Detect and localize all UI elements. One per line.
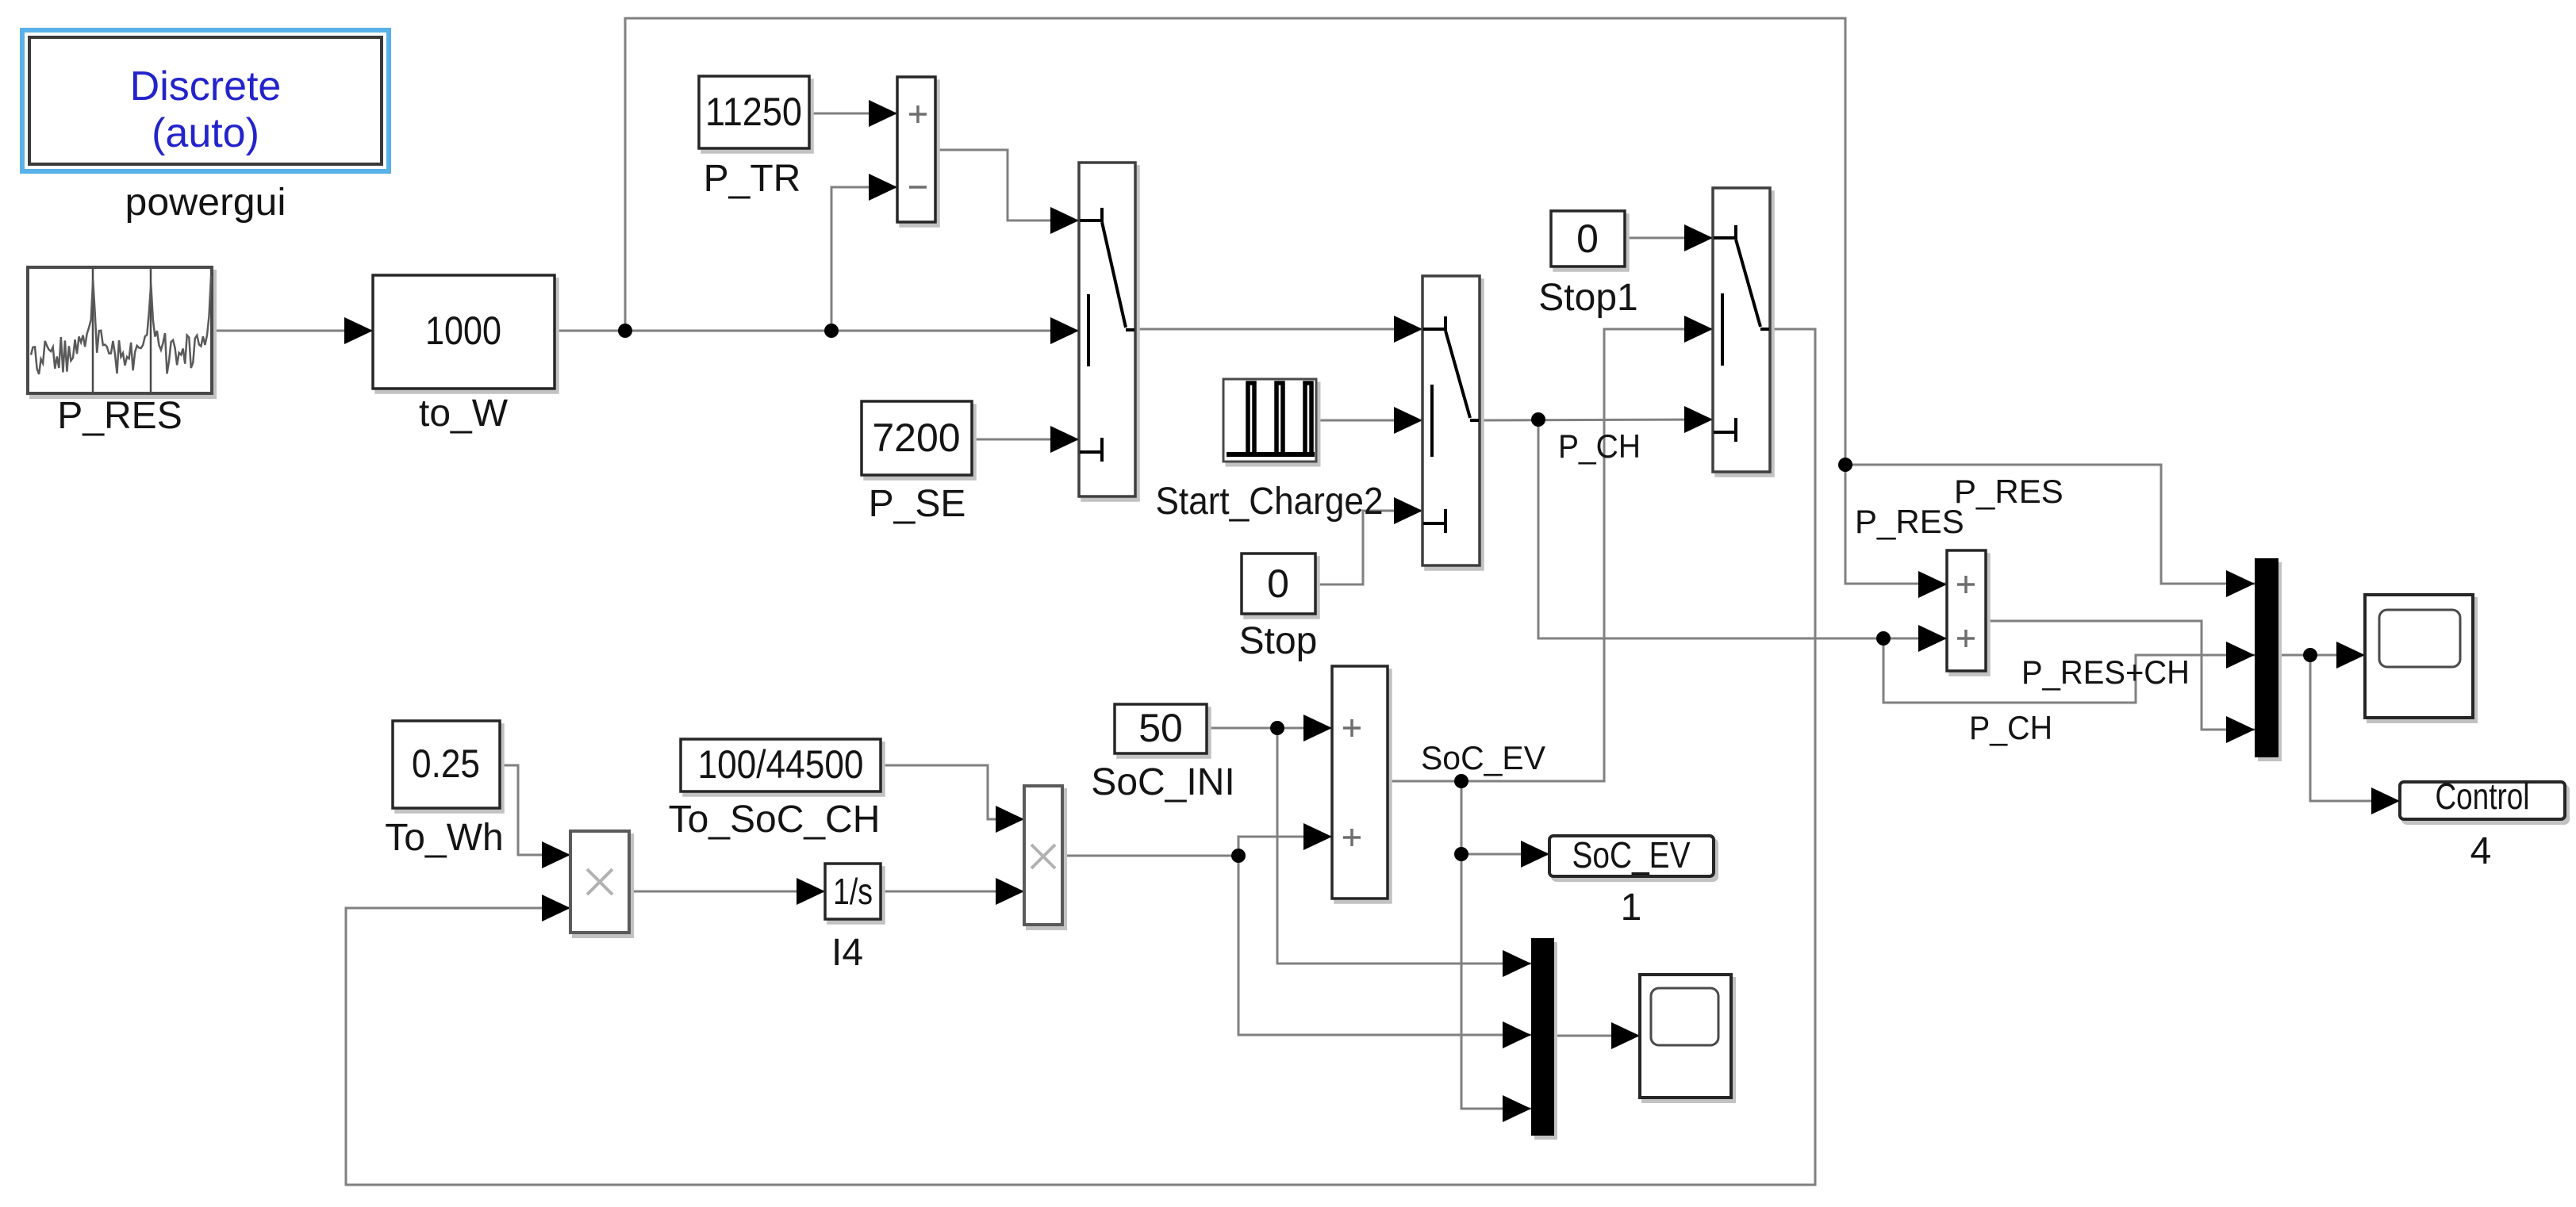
wire SoC_EV branch to mux1 in3: [1461, 854, 1531, 1109]
svg-text:To_Wh: To_Wh: [385, 817, 503, 859]
wire pulse to Switch2 control: [1316, 420, 1422, 422]
constant SoC_INI 50: [1115, 704, 1207, 753]
svg-text:SoC_EV: SoC_EV: [1421, 739, 1545, 776]
constant Stop 0: [1242, 554, 1315, 614]
wire Switch1 out to Switch2 in1: [1135, 328, 1422, 331]
wire Product2 branch to mux1 in2: [1238, 856, 1531, 1035]
node junction Product2 out: [1231, 849, 1246, 863]
svg-text:50: 50: [1138, 706, 1183, 750]
svg-text:4: 4: [2470, 830, 2492, 872]
constant P_SE 7200: [862, 401, 972, 475]
wire Switch3 out feedback to Product in2: [346, 329, 1815, 1185]
svg-text:SoC_INI: SoC_INI: [1091, 761, 1234, 803]
svg-text:11250: 11250: [705, 90, 802, 134]
node junction Add-minus branch: [824, 324, 839, 338]
wire Product2 out up to Add1 in2: [1238, 837, 1332, 856]
wire 11250 to Add: [809, 113, 897, 115]
outport Control: [2400, 782, 2565, 819]
wire 50 to Add1 in1: [1207, 727, 1332, 730]
mux Mux: [2255, 558, 2278, 757]
sum block Add (+/-): [897, 77, 935, 222]
node junction to_W/top branch: [618, 324, 632, 338]
source block P_RES waveform: [28, 267, 212, 393]
svg-text:powergui: powergui: [125, 182, 286, 224]
wire SoC_EV to outport: [1461, 781, 1549, 854]
svg-text:P_RES: P_RES: [1855, 503, 1964, 540]
svg-text:to_W: to_W: [419, 393, 509, 435]
outport SoC_EV: [1549, 836, 1714, 876]
svg-text:P_RES: P_RES: [57, 395, 182, 437]
wire 0.25 to Product in1: [500, 765, 570, 855]
svg-text:1: 1: [1621, 887, 1642, 929]
constant P_TR 11250: [699, 76, 809, 148]
wire mux out to Scope: [2278, 654, 2365, 657]
product Product (x): [570, 831, 629, 933]
sum block Add2 (+ +): [1947, 550, 1986, 671]
wire Stop1 to Switch3 in1: [1625, 237, 1713, 239]
svg-text:1/s: 1/s: [833, 871, 873, 912]
node junction mux out: [2303, 648, 2317, 662]
node junction SoC_EV outport branch: [1454, 847, 1468, 861]
wire to Control outport: [2310, 655, 2400, 801]
wire P_CH Switch2 out to Switch3 in3: [1480, 420, 1713, 420]
wire 7200 to Switch1 in3: [972, 439, 1079, 441]
svg-text:Discrete: Discrete: [130, 63, 282, 109]
wire Add1 out SoC_EV: [1388, 780, 1461, 783]
wire Product to integrator: [629, 891, 825, 893]
svg-text:(auto): (auto): [152, 110, 259, 156]
svg-text:P_RES: P_RES: [1954, 473, 2063, 510]
powergui block Discrete (auto): [22, 30, 389, 171]
scope Scope1: [1640, 975, 1731, 1098]
svg-text:P_CH: P_CH: [1969, 709, 2052, 746]
svg-text:Control: Control: [2436, 776, 2530, 817]
node junction P_CH to mux: [1876, 631, 1891, 646]
node junction SoC_EV: [1454, 774, 1468, 788]
wire P_CH down to Add2 in2: [1538, 420, 1947, 638]
wire mux1 out to Scope1: [1554, 1035, 1640, 1037]
node junction P_CH: [1531, 412, 1545, 427]
switch Switch3: [1713, 188, 1770, 472]
wire P_RES to to_W: [212, 330, 373, 332]
svg-text:0: 0: [1267, 561, 1289, 606]
wire 50 branch to mux1 in1: [1277, 728, 1531, 964]
svg-text:7200: 7200: [872, 416, 960, 460]
svg-text:I4: I4: [831, 932, 863, 974]
product Product2 (x): [1024, 786, 1062, 925]
sum block Add1 (+ +): [1332, 666, 1388, 899]
wire top P_RES long feed: [625, 18, 1845, 465]
wire Stop to Switch2 in3: [1315, 511, 1422, 584]
wire To_SoC_CH to Product2 in1: [881, 765, 1024, 819]
pulse generator Start_Charge2: [1223, 379, 1316, 462]
mux Mux1: [1531, 938, 1554, 1136]
wire P_CH to mux in2: [1883, 638, 2255, 703]
wire Add2 out to mux in3: [1986, 621, 2255, 730]
wire main to_W output to Switch1 control: [555, 330, 1079, 332]
switch Switch1: [1079, 163, 1135, 496]
svg-text:Stop: Stop: [1239, 620, 1318, 662]
svg-text:0.25: 0.25: [412, 741, 480, 786]
wire Product2 out: [1062, 855, 1238, 857]
svg-text:100/44500: 100/44500: [698, 742, 864, 787]
gain block to_W 1000: [373, 275, 555, 389]
node junction P_RES right: [1838, 458, 1852, 472]
scope Scope: [2365, 595, 2473, 718]
switch Switch2: [1422, 276, 1480, 565]
svg-text:1000: 1000: [425, 308, 501, 353]
wire integrator to Product2 in2: [881, 891, 1024, 893]
wire P_RES to mux: [1845, 465, 2255, 584]
constant Stop1 0: [1551, 211, 1625, 266]
integrator I4 1/s: [825, 864, 881, 919]
svg-text:SoC_EV: SoC_EV: [1572, 834, 1691, 876]
svg-text:0: 0: [1576, 216, 1599, 261]
arrows input ports: [344, 317, 373, 344]
svg-text:P_RES+CH: P_RES+CH: [2021, 653, 2190, 691]
constant To_SoC_CH 100/44500: [681, 739, 881, 791]
wire SoC_EV to Switch3 control: [1461, 329, 1713, 781]
node junction 50 branch: [1270, 721, 1284, 735]
svg-text:To_SoC_CH: To_SoC_CH: [669, 799, 881, 841]
wire branch to Add minus: [831, 187, 897, 331]
svg-text:P_SE: P_SE: [869, 483, 966, 525]
svg-text:P_CH: P_CH: [1558, 427, 1641, 465]
svg-text:Start_Charge2: Start_Charge2: [1156, 481, 1384, 523]
wire Add to Switch1 in1: [935, 150, 1079, 220]
svg-text:Stop1: Stop1: [1538, 277, 1637, 319]
constant To_Wh 0.25: [393, 721, 500, 808]
svg-text:P_TR: P_TR: [704, 158, 801, 200]
wire P_RES to Add2: [1845, 465, 1947, 584]
